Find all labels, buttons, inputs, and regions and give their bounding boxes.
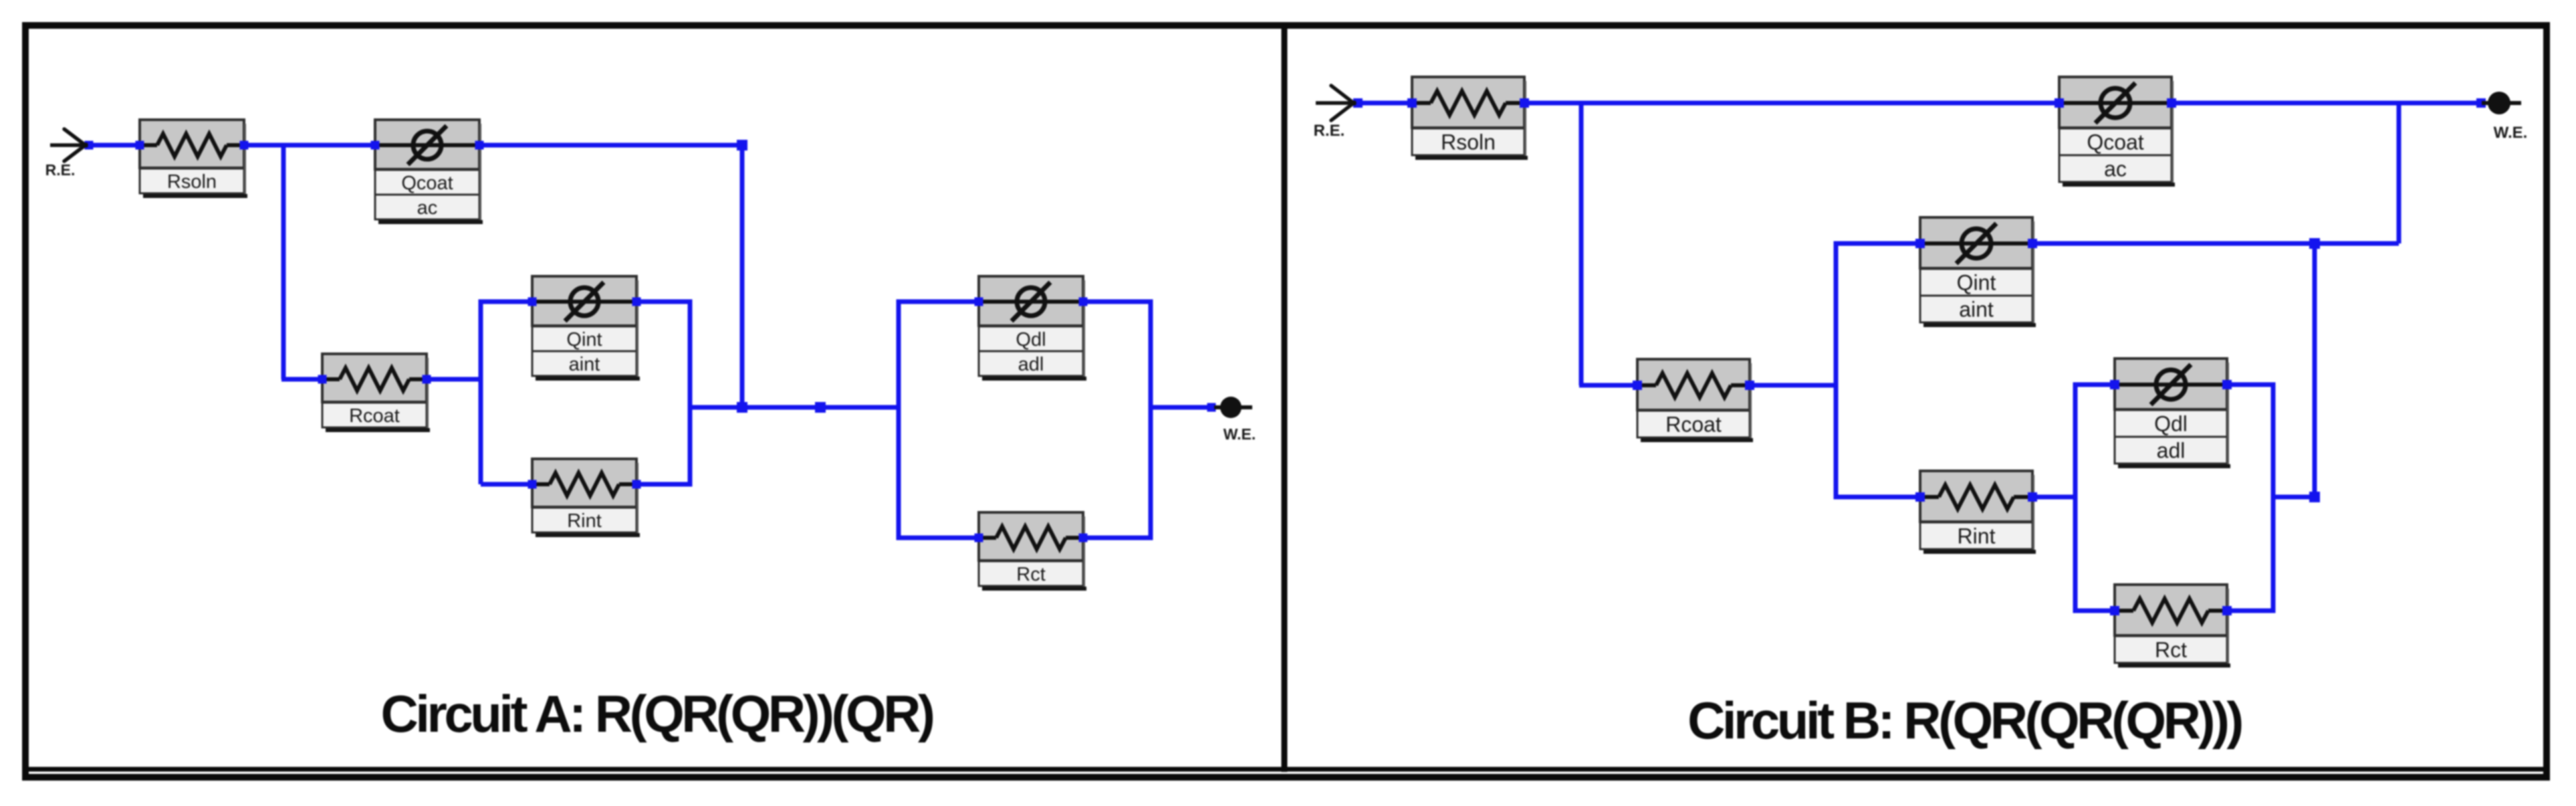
node: Qcoat left pin (B) <box>2055 98 2064 108</box>
svg-text:R.E.: R.E. <box>45 161 76 179</box>
node: Rct left pin <box>975 534 983 542</box>
q-element Qcoat B: box <box>2059 77 2175 187</box>
node: Qcoat left pin <box>371 141 380 150</box>
svg-text:R.E.: R.E. <box>1314 122 1345 140</box>
svg-text:Circuit B: R(QR(QR(QR))): Circuit B: R(QR(QR(QR))) <box>1687 691 2242 750</box>
wire: parallel-2 output (B) <box>2273 495 2315 500</box>
node: R.E. tip (B) <box>1353 98 1363 108</box>
svg-text:Rct: Rct <box>2155 638 2187 662</box>
svg-text:adl: adl <box>1018 354 1044 375</box>
wire: parallel-1 left rail <box>481 302 534 484</box>
wire: parallel-2 right rail <box>1083 302 1151 538</box>
node: Qint left pin (B) <box>1915 239 1925 248</box>
svg-text:Rsoln: Rsoln <box>167 171 217 193</box>
q-element Qdl: box <box>979 276 1086 381</box>
node: junction upper (B) <box>2309 238 2320 249</box>
node: W.E. connection <box>1207 403 1216 412</box>
wire: Rsoln to Qcoat (B) <box>1524 101 2059 106</box>
node: Qdl left pin (B) <box>2110 380 2119 389</box>
svg-text:Qdl: Qdl <box>1016 329 1046 350</box>
r-element Rcoat: box <box>322 354 430 432</box>
wire: parallel-2 left rail (B) <box>2075 385 2115 611</box>
node: Rct left pin (B) <box>2110 606 2119 615</box>
wire: junction vertical (B) <box>2313 243 2317 497</box>
node: Qcoat right pin <box>475 141 484 150</box>
node: W.E. connection (B) <box>2476 98 2486 108</box>
node: Rint right pin <box>632 480 641 489</box>
node: Rint left pin (B) <box>1915 492 1925 502</box>
node: top corner junction <box>737 140 747 150</box>
node: Rsoln left pin <box>136 141 144 150</box>
node: Rcoat left pin <box>318 375 327 384</box>
terminal R.E. (Circuit A) (reference electrode arrow) <box>45 129 86 179</box>
node: Rsoln left pin (B) <box>1407 98 1417 108</box>
svg-text:Rsoln: Rsoln <box>1441 130 1496 155</box>
svg-text:aint: aint <box>569 354 600 375</box>
node: Qcoat right pin (B) <box>2167 98 2176 108</box>
svg-text:Qcoat: Qcoat <box>2087 130 2143 155</box>
r-element Rsoln: box <box>140 120 247 198</box>
node: R.E. tip <box>85 141 94 150</box>
inner bottom border line of panels <box>29 767 2543 772</box>
node: branch junction 2 <box>815 402 826 413</box>
r-element Rct: box <box>979 512 1086 591</box>
node: Qint right pin <box>632 298 641 306</box>
node: Rct right pin <box>1079 534 1088 542</box>
r-element Rcoat B: box <box>1637 359 1753 442</box>
wire: vertical up to main line (B) <box>2397 103 2402 243</box>
svg-text:Qint: Qint <box>566 329 602 350</box>
svg-text:ac: ac <box>417 197 438 219</box>
svg-text:aint: aint <box>1959 298 1994 322</box>
wire: Rcoat right to parallel-1 left rail <box>427 377 483 382</box>
node: Qint left pin <box>528 298 537 306</box>
svg-text:adl: adl <box>2157 439 2186 463</box>
wire: vertical drop from main line to Rcoat branch <box>281 143 286 379</box>
node: Rint left pin <box>528 480 537 489</box>
svg-text:Rcoat: Rcoat <box>349 405 400 427</box>
r-element Rint: box <box>532 459 640 537</box>
wire: parallel-2 left rail <box>899 302 979 538</box>
wire: combined node to parallel-2 left rail <box>740 405 899 410</box>
svg-text:Rct: Rct <box>1016 564 1046 585</box>
svg-text:ac: ac <box>2104 157 2127 181</box>
node: Rint right pin (B) <box>2028 492 2037 502</box>
node: Rcoat left pin (B) <box>1633 381 1642 390</box>
wire: vertical from Qcoat branch down to output node <box>740 143 745 407</box>
q-element Qdl B: box <box>2115 359 2230 468</box>
r-element Rint B: box <box>1920 471 2036 554</box>
wire: parallel-2 output to W.E. <box>1151 405 1211 410</box>
q-element Qint: box <box>532 276 640 381</box>
q-element Qint B: box <box>1920 217 2036 327</box>
node: branch junction 1 <box>737 402 747 413</box>
node: Rsoln right pin (B) <box>1520 98 1529 108</box>
svg-text:Rcoat: Rcoat <box>1665 413 1722 437</box>
wire: to Rcoat left (B) <box>1579 383 1637 388</box>
svg-text:Qcoat: Qcoat <box>401 173 453 194</box>
svg-text:Qint: Qint <box>1957 271 1996 295</box>
wire: R.E. to Rsoln (B) <box>1358 101 1412 106</box>
svg-text:Rint: Rint <box>1958 524 1996 548</box>
vertical divider between Circuit A and Circuit B <box>1282 29 1288 772</box>
terminal W.E. (Circuit B) (working electrode) <box>2482 92 2527 142</box>
wire: parallel-1 left rail (B) <box>1836 243 1920 497</box>
svg-text:Rint: Rint <box>567 510 602 532</box>
node: Rcoat right pin <box>423 375 431 384</box>
node: Qint right pin (B) <box>2028 239 2037 248</box>
wire: Rsoln to Qcoat (passes branch tee) <box>244 143 375 148</box>
node: Qdl left pin <box>975 298 983 306</box>
wire: R.E. to Rsoln <box>89 143 140 148</box>
wire: parallel-1 right rail <box>636 302 690 484</box>
node: Rcoat right pin (B) <box>1745 381 1754 390</box>
wire: Rcoat right to rail (B) <box>1750 383 1838 388</box>
node: Qdl right pin (B) <box>2222 380 2232 389</box>
svg-text:W.E.: W.E. <box>1223 425 1256 443</box>
q-element Qcoat: box <box>375 120 483 224</box>
node: Qdl right pin <box>1079 298 1088 306</box>
node: Rct right pin (B) <box>2222 606 2232 615</box>
wire: Rint output (B) <box>2032 495 2075 500</box>
svg-text:Circuit A: R(QR(QR))(QR): Circuit A: R(QR(QR))(QR) <box>381 684 933 743</box>
wire: Qint output line (B) <box>2032 241 2399 246</box>
terminal R.E. (Circuit B) (reference electrode arrow) <box>1314 86 1355 140</box>
r-element Rsoln B: box <box>1412 77 1528 160</box>
terminal W.E. (Circuit A) (working electrode) <box>1214 397 1256 443</box>
r-element Rct B: box <box>2115 585 2230 668</box>
wire: to Rcoat left <box>281 377 322 382</box>
node: Rsoln right pin <box>240 141 249 150</box>
wire: parallel-2 right rail (B) <box>2227 385 2273 611</box>
node: junction lower (B) <box>2309 492 2320 502</box>
wire: parallel-1 output to node <box>690 405 742 410</box>
svg-text:Qdl: Qdl <box>2154 412 2188 436</box>
svg-text:W.E.: W.E. <box>2494 124 2528 142</box>
wire: vertical drop to Rcoat branch (B) <box>1579 101 1584 385</box>
wire: Qcoat to W.E. (B) <box>2172 101 2481 106</box>
wire: Qcoat right to top corner <box>479 143 742 148</box>
